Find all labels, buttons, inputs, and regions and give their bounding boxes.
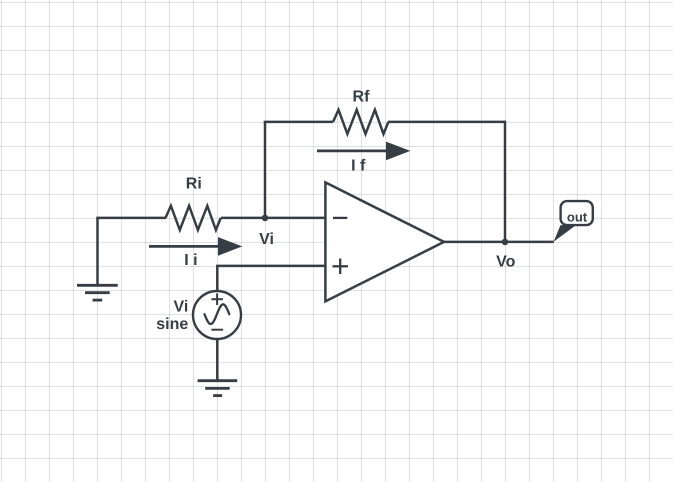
wire: source bottom to ground (216, 339, 219, 381)
voltage source V1 (sine source) (193, 291, 241, 339)
svg-text:sine: sine (156, 316, 188, 333)
source plus sign (211, 293, 223, 305)
svg-text:out: out (567, 210, 588, 225)
node Vi (junction dot) (262, 215, 269, 222)
svg-text:Ri: Ri (186, 176, 202, 193)
wire: left vertical to Ri (96, 217, 166, 220)
wire: feedback right vertical down to output (504, 121, 507, 242)
svg-text:Vi: Vi (173, 298, 188, 315)
svg-text:I i: I i (184, 252, 197, 269)
out callout tail (554, 225, 576, 242)
svg-text:I f: I f (351, 158, 366, 175)
op-amp inverting input minus sign (333, 217, 347, 219)
svg-text:Vi: Vi (259, 231, 274, 248)
wire: op-amp output to out callout (444, 241, 554, 244)
source minus sign (211, 329, 223, 331)
out callout box (561, 201, 593, 225)
current arrow If (317, 142, 410, 161)
node Vo (junction dot) (502, 239, 509, 246)
wire: left input vertical down to ground (96, 218, 99, 285)
wire: non-inverting input to source top (217, 266, 325, 291)
wire: Ri to op-amp inverting input (221, 217, 325, 220)
resistor Rf (333, 110, 388, 134)
resistor Ri (166, 206, 221, 230)
svg-text:Vo: Vo (496, 253, 515, 270)
source sine symbol (205, 304, 230, 324)
ground GND1 (left earth ground) (77, 285, 118, 300)
op-amp non-inverting input plus sign (333, 259, 349, 275)
op-amp U1 (325, 182, 444, 301)
wire: Vi node up to feedback corner (264, 122, 267, 218)
out callout (554, 201, 593, 242)
svg-text:Rf: Rf (353, 89, 371, 106)
wire: feedback top-right segment from Rf (388, 121, 505, 124)
wire: feedback top-left segment to Rf (264, 121, 333, 124)
ground GND2 (below source V1) (198, 381, 238, 396)
current arrow Ii (149, 237, 242, 256)
